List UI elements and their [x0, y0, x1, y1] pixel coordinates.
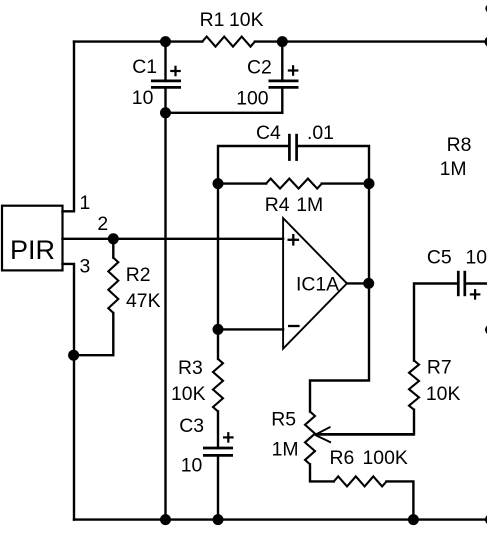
svg-text:10K: 10K [171, 383, 206, 405]
PIR sensor module box [2, 206, 63, 271]
wire C5 left lead down through R7 top [414, 284, 458, 361]
node: ground rail / R6 branch junction [408, 514, 419, 525]
op-amp non-inverting + marker [288, 234, 300, 246]
svg-text:10: 10 [181, 455, 203, 477]
capacitor C4 plates [289, 134, 296, 161]
wire left vertical upper (pin 1 to top rail) [63, 42, 75, 212]
svg-text:R5: R5 [271, 409, 296, 431]
svg-text:.01: .01 [307, 122, 334, 144]
svg-text:10: 10 [132, 87, 154, 109]
svg-text:1: 1 [80, 192, 91, 214]
wire R6 right lead down to ground rail [387, 481, 414, 519]
node: op-amp output junction [363, 278, 374, 289]
svg-text:C3: C3 [179, 415, 204, 437]
wire C5 right lead to edge [465, 282, 487, 284]
wire top supply rail right of R1 [255, 40, 487, 42]
wire C1 top lead [164, 42, 166, 81]
wire left vertical lower (pin 3 down to bottom rail) [63, 264, 75, 520]
resistor R7 10K [409, 361, 419, 410]
potentiometer R5 wiper arrow [315, 427, 414, 443]
svg-text:C2: C2 [247, 57, 272, 79]
wire output vertical down and over to R5 top [310, 184, 369, 412]
op-amp inverting - marker [288, 325, 300, 327]
wire R2 top lead [112, 239, 114, 258]
wire inverting input from node to op-amp [218, 328, 283, 330]
node: R4 left / C4 left junction [213, 178, 224, 189]
wire vertical net x=218 (R4 left node down through R3) [217, 184, 219, 359]
svg-text:2: 2 [97, 213, 108, 235]
node: R4 right / C4 right junction [364, 178, 375, 189]
svg-text:100K: 100K [363, 447, 408, 469]
capacitor C2 plates [269, 81, 299, 88]
svg-text:C4: C4 [256, 122, 281, 144]
wire bottom ground rail [74, 518, 487, 520]
capacitor C5 plates [458, 271, 465, 296]
svg-text:R3: R3 [178, 357, 203, 379]
svg-text:PIR: PIR [10, 235, 55, 265]
wire R3 bottom to C3 top plate [217, 411, 219, 448]
svg-text:1M: 1M [440, 158, 467, 180]
svg-text:R7: R7 [427, 356, 452, 378]
wire op-amp output [347, 282, 369, 284]
wire C4 right branch [297, 146, 369, 184]
node: C1 bottom / C2 bottom junction [160, 107, 171, 118]
node: clipped dot right edge mid [485, 325, 487, 335]
svg-text:3: 3 [80, 256, 91, 278]
resistor R1 10K [202, 37, 255, 47]
capacitor C1 polarity + [170, 66, 181, 77]
svg-text:C5: C5 [427, 246, 452, 268]
svg-text:10K: 10K [229, 9, 264, 31]
wire C2 bottom lead to node under C1 [166, 87, 283, 112]
resistor R3 10K [213, 359, 223, 412]
wire R7 bottom lead [413, 410, 415, 435]
svg-text:R1: R1 [200, 9, 225, 31]
node: ground rail / C1 branch junction [160, 514, 171, 525]
svg-text:1M: 1M [272, 439, 299, 461]
svg-text:R8: R8 [447, 134, 472, 156]
wire R4 right lead [322, 182, 369, 184]
svg-text:R4: R4 [265, 194, 290, 216]
svg-text:R2: R2 [126, 264, 151, 286]
capacitor C3 polarity + [223, 432, 234, 443]
svg-text:1M: 1M [296, 194, 323, 216]
node: clipped dot top rail right edge [485, 36, 487, 47]
wire pin 2 to op-amp + input [63, 238, 284, 240]
svg-text:10K: 10K [426, 383, 461, 405]
svg-text:10: 10 [466, 246, 487, 268]
node: top rail / C1 junction [160, 36, 171, 47]
svg-text:IC1A: IC1A [296, 274, 339, 296]
node: top rail / C2 junction [277, 36, 288, 47]
wire C3 bottom plate to ground rail [217, 455, 219, 519]
wire R5 bottom to R6 left lead [310, 464, 334, 481]
wire C1 bottom lead down to ground rail [164, 87, 166, 519]
svg-text:47K: 47K [126, 290, 161, 312]
node: pin 2 / R2 junction [108, 233, 119, 244]
op-amp U1 IC1A triangle [283, 218, 347, 349]
wire R2 bottom lead to left rail [74, 313, 114, 355]
node: inverting input / R3 top junction [213, 324, 224, 335]
wire C2 top lead [281, 42, 283, 81]
resistor R4 1M [266, 179, 322, 189]
capacitor C1 plates [151, 81, 181, 88]
node: left rail / R2 bottom junction [68, 350, 79, 361]
resistor R2 47K [108, 258, 118, 313]
wire R4 left lead [218, 182, 266, 184]
svg-text:C1: C1 [132, 56, 157, 78]
node: clipped dot top right corner [485, 4, 487, 12]
wire C4 left branch [218, 146, 289, 184]
svg-text:100: 100 [236, 88, 269, 110]
resistor R5 1M potentiometer body [305, 412, 315, 465]
resistor R6 100K [334, 476, 387, 486]
node: clipped dot ground rail right edge [485, 514, 487, 525]
capacitor C5 polarity + [470, 289, 481, 300]
node: ground rail / C3 branch junction [213, 514, 224, 525]
svg-text:R6: R6 [330, 447, 355, 469]
capacitor C3 plates [203, 448, 233, 455]
capacitor C2 polarity + [288, 65, 299, 76]
wire top supply rail left of R1 [74, 40, 202, 42]
